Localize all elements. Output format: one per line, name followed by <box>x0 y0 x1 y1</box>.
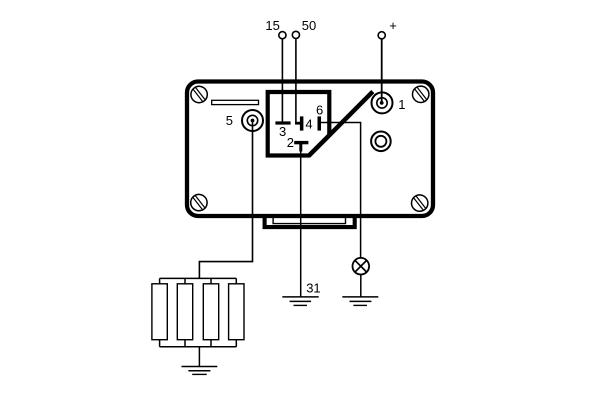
battery plus circle <box>378 32 385 39</box>
wire 50 to pin 4 <box>295 39 297 124</box>
ground 31 <box>282 297 318 306</box>
glow plug 4 <box>229 284 244 340</box>
glow plug 2 <box>177 284 192 340</box>
svg-text:3: 3 <box>279 124 286 139</box>
wire plus to terminal 1 <box>381 39 383 103</box>
wire bus to ground <box>198 347 200 367</box>
glow plug 1 <box>152 284 167 340</box>
wire terminal 5 to glow plugs <box>251 119 255 123</box>
svg-text:15: 15 <box>265 18 279 33</box>
svg-text:31: 31 <box>306 280 320 295</box>
connector tab (bottom of relay body) <box>265 215 355 227</box>
relay body <box>187 82 433 217</box>
terminal 15 circle <box>279 32 286 39</box>
terminal 1 <box>372 92 393 113</box>
svg-text:5: 5 <box>226 113 233 128</box>
glow plug top stubs <box>160 278 237 284</box>
mounting ring <box>371 132 391 152</box>
ground at lamp <box>342 297 378 306</box>
screw top-left <box>188 83 211 106</box>
terminal 5 <box>242 110 263 131</box>
glow plug bottom stubs <box>160 340 237 347</box>
svg-text:4: 4 <box>305 116 312 131</box>
pin 4 stub <box>295 122 300 125</box>
switch arm diagonal <box>309 92 373 157</box>
ground at glow plugs <box>182 367 218 375</box>
glow plug bottom bus <box>160 346 237 348</box>
svg-text:1: 1 <box>398 97 405 112</box>
connector box <box>268 92 330 156</box>
screw bottom-right <box>408 192 431 215</box>
wire lamp to ground <box>360 274 362 297</box>
pin 3 <box>275 121 290 124</box>
svg-text:2: 2 <box>287 135 294 150</box>
terminal 50 circle <box>292 31 299 38</box>
pin 4 <box>300 116 304 130</box>
pin 6 <box>318 116 322 130</box>
wire pin 2 to ground 31 <box>300 147 302 297</box>
screw top-right <box>409 83 432 106</box>
indicator lamp <box>353 258 370 275</box>
pin 2 <box>294 141 308 144</box>
label strip <box>212 100 259 104</box>
wire 15 to pin 3 <box>281 39 283 122</box>
wire pin 6 to lamp <box>321 123 361 259</box>
svg-text:+: + <box>389 18 397 33</box>
svg-text:50: 50 <box>302 18 316 33</box>
svg-text:6: 6 <box>316 102 323 117</box>
glow plug 3 <box>203 284 218 340</box>
glow plug top bus <box>160 277 237 279</box>
screw bottom-left <box>187 191 210 214</box>
